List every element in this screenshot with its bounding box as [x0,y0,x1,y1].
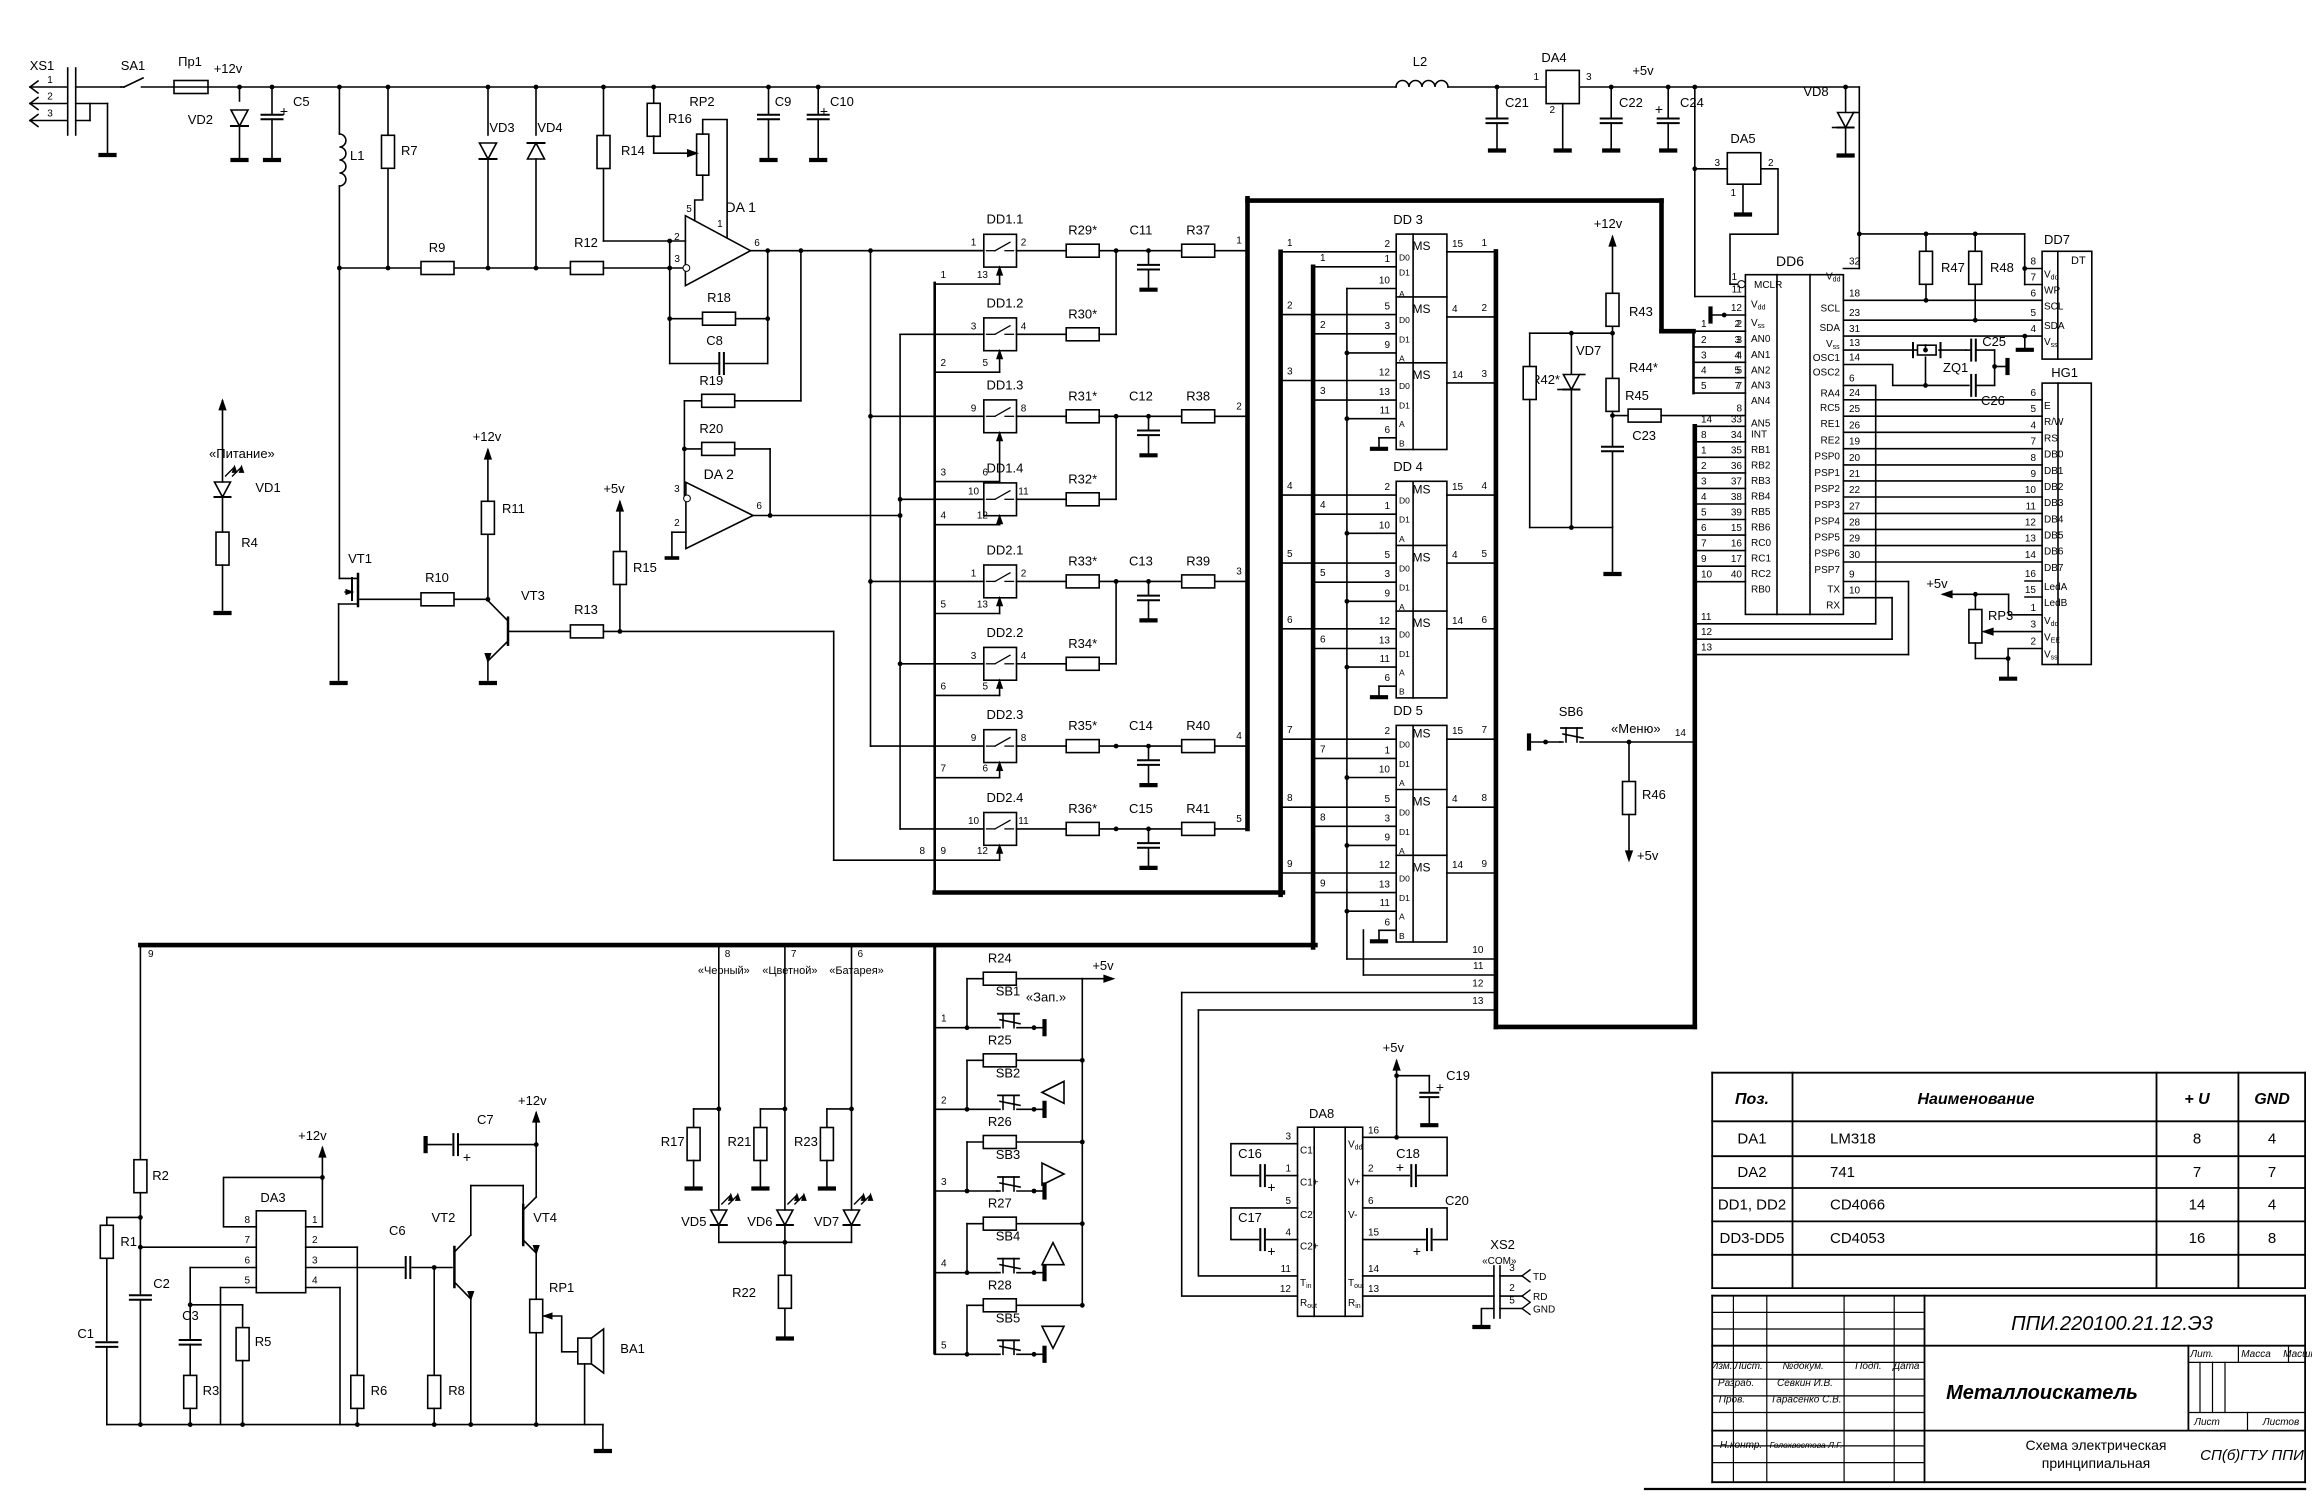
svg-text:2: 2 [941,1095,947,1106]
svg-text:5: 5 [244,1276,250,1287]
svg-text:TD: TD [1533,1272,1546,1283]
svg-text:1: 1 [1236,236,1242,247]
svg-text:DD1, DD2: DD1, DD2 [1718,1197,1786,1214]
svg-text:1: 1 [1384,501,1390,512]
svg-text:Металлоискатель: Металлоискатель [1946,1382,2138,1404]
wire DD7 Vdd WP [2024,234,2026,285]
svg-text:C5: C5 [293,94,310,109]
svg-text:4: 4 [1452,550,1458,561]
svg-text:DD 4: DD 4 [1393,459,1423,474]
svg-text:AN0: AN0 [1751,334,1771,345]
wire DD6 AN pin 3 [1694,346,1746,348]
svg-text:8: 8 [2030,453,2036,464]
svg-text:+12v: +12v [1594,216,1623,231]
svg-text:2: 2 [2030,637,2036,648]
svg-text:6: 6 [982,764,988,775]
svg-text:21: 21 [1849,469,1861,480]
svg-text:D0: D0 [1399,381,1410,391]
svg-text:MS: MS [1413,302,1431,316]
svg-text:MS: MS [1413,368,1431,382]
svg-text:3: 3 [1236,566,1242,577]
svg-text:1: 1 [1701,319,1707,330]
svg-text:3: 3 [674,484,680,495]
svg-text:A: A [1399,912,1405,922]
svg-text:14: 14 [1368,1264,1380,1275]
svg-text:6: 6 [1701,523,1707,534]
svg-text:VD8: VD8 [1803,84,1828,99]
svg-text:+: + [1396,1159,1404,1175]
svg-text:5: 5 [941,1340,947,1351]
svg-text:3: 3 [1586,72,1592,83]
svg-text:Схема электрическая: Схема электрическая [2025,1437,2166,1453]
svg-text:1: 1 [1533,72,1539,83]
svg-text:1: 1 [312,1215,318,1226]
svg-text:MS: MS [1413,239,1431,253]
svg-text:12: 12 [1280,1284,1292,1295]
svg-text:28: 28 [1849,517,1861,528]
wire DA5 pin2 to MCLR [1730,169,1778,284]
svg-text:16: 16 [2025,569,2037,580]
svg-text:3: 3 [1701,350,1707,361]
svg-text:5: 5 [941,600,947,611]
svg-text:15: 15 [1452,726,1464,737]
svg-text:33: 33 [1731,414,1743,425]
svg-text:4: 4 [2268,1131,2276,1148]
wire RP2 bottom to DA1 pin5 [695,175,703,221]
svg-text:DD2.3: DD2.3 [987,707,1024,722]
svg-text:Масса: Масса [2241,1349,2271,1360]
svg-text:6: 6 [858,949,864,960]
svg-text:5: 5 [2030,404,2036,415]
svg-text:DD1.4: DD1.4 [987,460,1024,475]
svg-text:10: 10 [1379,765,1391,776]
ground C22 [1604,148,1618,152]
svg-text:SDA: SDA [2044,321,2065,332]
svg-text:10: 10 [1379,276,1391,287]
bus F DD6 left ladder [1693,426,1698,1027]
svg-text:2: 2 [1021,568,1027,579]
svg-text:4: 4 [2268,1197,2276,1214]
svg-text:1: 1 [971,568,977,579]
svg-text:B: B [1399,687,1405,697]
svg-text:RB5: RB5 [1751,507,1771,518]
svg-text:3: 3 [1287,367,1293,378]
svg-text:9: 9 [1701,554,1707,565]
svg-text:MS: MS [1413,860,1431,874]
svg-text:8: 8 [1021,403,1027,414]
svg-text:PSP6: PSP6 [1814,549,1840,560]
svg-text:7: 7 [2268,1164,2276,1181]
svg-text:5: 5 [1701,381,1707,392]
svg-text:4: 4 [1701,366,1707,377]
bus C vertical [1311,267,1316,948]
svg-text:PSP4: PSP4 [1814,516,1840,527]
wire DA2 pin2 ground [672,531,686,533]
bus E right of DD3-DD5 [1494,251,1499,1027]
svg-text:2: 2 [1481,303,1487,314]
svg-text:AN1: AN1 [1751,350,1771,361]
svg-text:VD5: VD5 [681,1214,706,1229]
svg-text:C1+: C1+ [1300,1178,1319,1189]
wire DD2.3 input [871,745,984,747]
svg-text:C15: C15 [1129,801,1153,816]
ground VD8 [1839,153,1853,157]
svg-text:7: 7 [1287,725,1293,736]
svg-text:3: 3 [971,651,977,662]
svg-text:6: 6 [1384,425,1390,436]
svg-text:C1': C1' [1300,1146,1315,1157]
svg-text:OSC2: OSC2 [1813,368,1841,379]
svg-text:Дата: Дата [1892,1361,1920,1372]
bus SB column [933,945,936,1353]
svg-text:26: 26 [1849,420,1861,431]
svg-text:4: 4 [1287,481,1293,492]
svg-text:6: 6 [1287,615,1293,626]
svg-text:4: 4 [2030,324,2036,335]
svg-text:C7: C7 [477,1112,494,1127]
svg-text:VD4: VD4 [537,120,562,135]
ground C13 [1142,618,1156,622]
wire DA3 pin8 to +12v [224,1177,323,1226]
svg-text:13: 13 [1701,643,1713,654]
wire DA3 pin7 row [140,1246,256,1248]
svg-text:1: 1 [2030,603,2036,614]
svg-text:Масшт: Масшт [2283,1349,2312,1360]
svg-text:DA 2: DA 2 [704,466,735,482]
svg-text:+: + [1413,1243,1421,1259]
wire DD6 Vdd pin11 [1695,296,1746,298]
svg-text:VD7: VD7 [1576,343,1601,358]
ground DD6 Vss pin12 [1713,314,1745,316]
svg-text:4: 4 [1452,304,1458,315]
svg-text:6: 6 [941,681,947,692]
svg-text:3: 3 [1701,476,1707,487]
svg-text:3: 3 [1481,369,1487,380]
wire DD1.2 input [900,333,984,335]
svg-text:6: 6 [2030,388,2036,399]
svg-text:5: 5 [1509,1296,1515,1307]
svg-text:D1: D1 [1399,334,1410,344]
wire RX to net 12 [1843,597,1892,599]
svg-text:R15: R15 [633,560,657,575]
svg-text:11: 11 [1701,612,1712,623]
title block right section [2187,1346,2189,1431]
wire RP2 top to DA1 pin1 [703,120,727,239]
svg-text:Лист: Лист [2193,1417,2220,1428]
svg-text:2: 2 [1021,238,1027,249]
svg-text:R45: R45 [1625,388,1649,403]
svg-text:RA4: RA4 [1821,388,1841,399]
ground DA4 [1556,148,1570,152]
svg-text:15: 15 [1452,239,1464,250]
svg-text:Н.контр.: Н.контр. [1720,1440,1762,1451]
svg-text:7: 7 [1734,381,1740,392]
wire DD1.2 control net 2 [935,371,1000,373]
svg-text:1: 1 [1384,745,1390,756]
svg-text:10: 10 [1472,945,1484,956]
svg-text:11: 11 [1732,285,1743,296]
svg-text:VD3: VD3 [489,120,514,135]
wire input row to DA1 pin3 [339,267,570,269]
svg-text:1: 1 [941,1014,947,1025]
wire C25 C26 to ground [1994,350,1996,385]
ground C23 [1606,572,1620,576]
svg-text:14: 14 [2025,550,2037,561]
svg-text:RE2: RE2 [1821,435,1841,446]
svg-text:AN3: AN3 [1751,381,1771,392]
svg-text:RC1: RC1 [1751,554,1771,565]
svg-text:2: 2 [941,358,947,369]
label SB4 symbol [1042,1243,1064,1265]
wire DA8 Tout to XS2 [1363,1275,1494,1277]
svg-text:8: 8 [1736,404,1742,415]
svg-text:27: 27 [1849,501,1861,512]
svg-text:5: 5 [982,681,988,692]
svg-text:+5v: +5v [603,481,625,496]
svg-text:6: 6 [1849,373,1855,384]
svg-text:15: 15 [1368,1228,1380,1239]
svg-text:9: 9 [1320,879,1326,890]
svg-text:9: 9 [971,403,977,414]
svg-text:R46: R46 [1642,787,1666,802]
ground C19 [1422,1123,1436,1127]
svg-text:Тарасенко С.В.: Тарасенко С.В. [1770,1395,1841,1406]
svg-text:R33*: R33* [1068,553,1097,568]
wire DA3 pin3 to C6 [306,1267,404,1269]
svg-text:4: 4 [941,1259,947,1270]
ground DD7 Vss [2024,336,2026,347]
svg-text:+: + [463,1149,471,1165]
ground R21 [753,1186,767,1190]
svg-text:Лист.: Лист. [1733,1361,1762,1372]
svg-text:D1: D1 [1399,759,1410,769]
svg-text:R29*: R29* [1068,223,1097,238]
svg-text:RP1: RP1 [549,1280,574,1295]
svg-text:R3: R3 [203,1383,220,1398]
ground C24 [1661,148,1675,152]
svg-text:RB1: RB1 [1751,445,1771,456]
svg-text:CD4053: CD4053 [1830,1230,1885,1247]
svg-text:37: 37 [1731,476,1743,487]
svg-text:8: 8 [2030,257,2036,268]
svg-text:R8: R8 [448,1383,465,1398]
svg-text:4: 4 [1734,350,1740,361]
svg-text:«Батарея»: «Батарея» [829,965,884,977]
svg-text:6: 6 [1384,917,1390,928]
svg-text:30: 30 [1849,550,1861,561]
svg-text:DB6: DB6 [2044,547,2064,558]
svg-text:L2: L2 [1413,54,1427,69]
svg-text:14: 14 [1675,728,1687,739]
svg-text:5: 5 [1734,366,1740,377]
svg-text:11: 11 [1018,816,1029,827]
svg-text:5: 5 [1384,794,1390,805]
wire ZQ1 vertical [1925,345,1927,350]
svg-text:R7: R7 [401,143,418,158]
svg-text:VD1: VD1 [255,480,280,495]
svg-text:R26: R26 [988,1114,1012,1129]
svg-text:VD6: VD6 [747,1214,772,1229]
svg-text:SB3: SB3 [996,1147,1021,1162]
svg-text:TX: TX [1827,585,1840,596]
svg-text:R28: R28 [988,1277,1012,1292]
wire nets 11 12 13 from bus F [1695,623,1876,625]
ground C11 [1142,288,1156,292]
wire DD2.2 control net 6 [935,694,1000,696]
svg-text:DT: DT [2071,255,2086,267]
svg-text:B: B [1399,931,1405,941]
svg-text:R11: R11 [502,501,525,516]
svg-text:9: 9 [941,846,947,857]
svg-text:15: 15 [1731,523,1743,534]
svg-text:3: 3 [1285,1132,1291,1143]
svg-text:+12v: +12v [214,61,243,76]
svg-text:3: 3 [47,109,53,120]
svg-text:Подп.: Подп. [1855,1361,1882,1372]
svg-text:5: 5 [1701,508,1707,519]
svg-text:+5v: +5v [1383,1040,1405,1055]
svg-text:2: 2 [1509,1283,1515,1294]
svg-text:принципиальная: принципиальная [2042,1455,2151,1471]
svg-text:R5: R5 [255,1334,272,1349]
label SB5 symbol [1042,1326,1064,1348]
svg-text:8: 8 [725,949,731,960]
svg-text:14: 14 [1452,616,1464,627]
svg-text:+: + [1267,1179,1275,1195]
wire net 12 to DA8 Rout [1182,993,1298,1297]
svg-text:C22: C22 [1619,95,1643,110]
svg-text:R43: R43 [1629,304,1653,319]
wire SCL line [1843,299,2042,301]
ground DD 4 pin B [1379,685,1396,687]
svg-text:MS: MS [1413,616,1431,630]
svg-text:5: 5 [1320,568,1326,579]
ground C12 [1142,453,1156,457]
svg-text:1: 1 [1287,238,1293,249]
svg-text:DD2.2: DD2.2 [987,625,1024,640]
svg-text:«Питание»: «Питание» [209,446,275,461]
title block rows left [1712,1311,1924,1313]
svg-text:3: 3 [1384,813,1390,824]
wire R14 to DA1 pin2 [604,240,686,242]
svg-text:9: 9 [1384,832,1390,843]
svg-text:VD2: VD2 [188,112,213,127]
ground XS1 [101,153,115,157]
svg-text:5: 5 [1384,302,1390,313]
wire ground rail DA3 [107,1424,603,1426]
wire DD1.1 input [871,250,984,252]
svg-text:9: 9 [1384,340,1390,351]
svg-text:7: 7 [2030,437,2036,448]
svg-text:11: 11 [1380,654,1391,665]
svg-text:DA 1: DA 1 [726,199,757,215]
svg-text:C1: C1 [77,1326,94,1341]
svg-text:12: 12 [1472,979,1484,990]
svg-text:RE1: RE1 [1821,419,1841,430]
svg-text:ППИ.220100.21.12.Э3: ППИ.220100.21.12.Э3 [2011,1313,2213,1335]
svg-text:V+: V+ [1348,1178,1361,1189]
svg-text:D1: D1 [1399,583,1410,593]
svg-text:2: 2 [1320,320,1326,331]
svg-text:6: 6 [1368,1196,1374,1207]
svg-text:4: 4 [1285,1228,1291,1239]
svg-text:R47: R47 [1941,260,1965,275]
svg-text:PSP7: PSP7 [1814,565,1840,576]
svg-text:5: 5 [1287,549,1293,560]
svg-text:16: 16 [1731,539,1743,550]
svg-text:7: 7 [791,949,797,960]
svg-text:«Цветной»: «Цветной» [762,965,817,977]
svg-text:Лит.: Лит. [2189,1349,2213,1360]
svg-text:3: 3 [1384,321,1390,332]
svg-text:+12v: +12v [518,1093,547,1108]
label SB3 symbol [1042,1163,1064,1185]
svg-text:1: 1 [717,219,723,230]
svg-text:A: A [1399,353,1405,363]
svg-text:14: 14 [1452,370,1464,381]
svg-text:C2': C2' [1300,1210,1315,1221]
svg-text:RC5: RC5 [1820,403,1840,414]
wire HG1 Vss ground [2008,649,2042,677]
svg-text:7: 7 [941,764,947,775]
svg-text:1: 1 [971,238,977,249]
svg-text:D0: D0 [1399,496,1410,506]
wire SDA line [1843,319,2042,321]
wire feedback right rail [767,251,769,364]
wire R42 VD7 C23 bottom [1530,527,1613,529]
svg-text:5: 5 [1236,814,1242,825]
svg-text:«Зап.»: «Зап.» [1026,990,1066,1005]
svg-text:R44*: R44* [1629,360,1658,375]
svg-text:HG1: HG1 [2051,365,2078,380]
svg-text:C12: C12 [1129,388,1153,403]
wire net 11 to bus E [1363,974,1496,976]
svg-text:R/W: R/W [2044,417,2064,428]
svg-text:7: 7 [1481,725,1487,736]
svg-text:R9: R9 [429,240,446,255]
svg-text:C13: C13 [1129,553,1153,568]
wire DA2 input rail [683,401,685,499]
svg-text:C2: C2 [153,1276,170,1291]
svg-text:D0: D0 [1399,808,1410,818]
svg-text:3: 3 [312,1256,318,1267]
svg-text:SDA: SDA [1819,323,1840,334]
wire DD6 AN pin 2 [1694,330,1746,332]
ground DD 5 pin B [1379,929,1396,931]
svg-text:DA8: DA8 [1309,1106,1334,1121]
wire R42 VD7 top [1530,332,1613,334]
svg-text:C21: C21 [1505,95,1529,110]
svg-text:SB6: SB6 [1559,704,1584,719]
svg-text:A: A [1399,419,1405,429]
svg-text:15: 15 [2025,585,2037,596]
svg-text:38: 38 [1731,492,1743,503]
svg-text:10: 10 [1701,570,1713,581]
ground C10 [811,158,825,162]
svg-text:R12: R12 [574,235,598,250]
svg-text:RS: RS [2044,433,2058,444]
svg-text:9: 9 [1481,859,1487,870]
svg-text:C8: C8 [706,333,723,348]
svg-text:R2: R2 [152,1168,169,1183]
svg-text:DB5: DB5 [2044,530,2064,541]
svg-text:DB2: DB2 [2044,482,2064,493]
svg-text:DB4: DB4 [2044,514,2064,525]
svg-text:15: 15 [1452,482,1464,493]
svg-text:12: 12 [1379,860,1391,871]
svg-text:C11: C11 [1129,223,1152,238]
svg-text:C23: C23 [1632,428,1656,443]
